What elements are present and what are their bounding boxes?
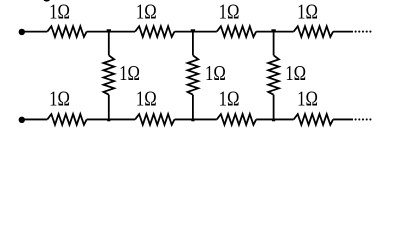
svg-text:1Ω: 1Ω — [136, 1, 157, 24]
svg-text:1Ω: 1Ω — [205, 62, 226, 85]
svg-text:1Ω: 1Ω — [119, 62, 140, 85]
svg-text:1Ω: 1Ω — [297, 1, 318, 24]
svg-text:1Ω: 1Ω — [285, 62, 306, 85]
svg-text:1Ω: 1Ω — [49, 1, 70, 24]
svg-text:1Ω: 1Ω — [297, 88, 318, 111]
svg-text:1Ω: 1Ω — [219, 88, 240, 111]
svg-text:1Ω: 1Ω — [136, 88, 157, 111]
svg-text:1Ω: 1Ω — [49, 88, 70, 111]
svg-text:1Ω: 1Ω — [219, 1, 240, 24]
